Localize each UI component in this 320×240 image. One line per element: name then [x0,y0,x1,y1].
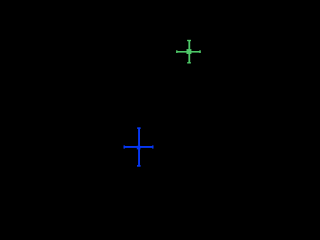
blue center pad square [137,146,141,150]
node A (green crosshair connection marker) [176,40,201,64]
canvas background [0,0,232,211]
green center pad square [187,49,192,54]
blue left end cap [124,145,125,148]
green left end cap [176,50,177,53]
wire: blue horizontal arm [124,146,153,148]
blue top end cap [137,127,140,129]
green top end cap [187,40,191,41]
wire: green horizontal arm [177,51,201,53]
wire: green vertical arm [188,40,190,63]
green bottom end cap [187,62,191,63]
node B (blue crosshair connection marker) [124,127,154,166]
wire: blue vertical arm [138,128,140,167]
blue right end cap [152,145,153,148]
green right end cap [199,50,201,53]
blue bottom end cap [137,165,141,167]
